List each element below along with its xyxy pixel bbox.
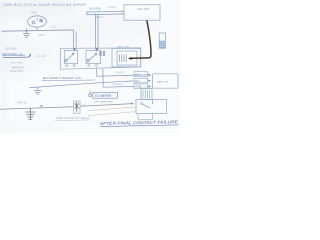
ignition switch S1 box xyxy=(124,5,160,20)
svg-text:POSITION: POSITION xyxy=(10,69,23,73)
connector F1 (top right) xyxy=(159,33,165,48)
wire: switched feed stub with hook arrow xyxy=(3,55,30,58)
W3 arrowhead xyxy=(148,85,151,87)
svg-text:FUEL GAUGE TO FUEL P.: FUEL GAUGE TO FUEL P. xyxy=(56,116,90,120)
bottom wire arrowhead right xyxy=(131,103,134,105)
wire: motor stem xyxy=(36,27,38,30)
unit switch pivot xyxy=(141,103,143,105)
tan wire T1 xyxy=(88,107,136,111)
paper background xyxy=(0,0,180,133)
svg-text:12 volt: 12 volt xyxy=(37,54,45,58)
bottom caption text xyxy=(99,119,179,126)
coil A terminals xyxy=(66,65,68,67)
label box TO WIPER xyxy=(93,92,118,98)
coil B terminals xyxy=(88,65,90,67)
svg-text:GRN 16: GRN 16 xyxy=(17,100,28,104)
svg-text:12V wiper feed: 12V wiper feed xyxy=(94,99,113,103)
contact section inner box xyxy=(117,51,137,65)
wire: drop pair to relay coil B xyxy=(96,14,98,49)
connector on top of unit xyxy=(141,89,152,100)
ground G3 xyxy=(26,108,36,120)
contact plate marks xyxy=(100,51,105,56)
arrow into coil B xyxy=(95,48,98,51)
wire W3 drop and run xyxy=(103,69,134,87)
stub loop below unit xyxy=(138,114,152,120)
svg-text:BLK/RED: BLK/RED xyxy=(89,6,101,10)
unit contact tick xyxy=(152,100,154,104)
svg-text:TO WIPER: TO WIPER xyxy=(95,94,112,98)
wire W2 long from left xyxy=(30,81,134,88)
wire: drop pair to relay coil A xyxy=(74,30,77,49)
mid-wire arrowhead xyxy=(41,105,44,107)
contact section outer box xyxy=(112,48,141,66)
svg-text:14 GA: 14 GA xyxy=(108,5,116,9)
arrow into coil A xyxy=(73,48,76,51)
unit switch arm xyxy=(142,104,150,108)
tan wire T2 xyxy=(88,112,136,116)
svg-text:BLU W/WHT TRACER +12V: BLU W/WHT TRACER +12V xyxy=(43,76,82,80)
svg-text:GRN: GRN xyxy=(38,33,46,37)
svg-text:BLU: BLU xyxy=(135,79,140,83)
wire: main feed (left horizontal) xyxy=(2,30,74,31)
svg-text:PARKING: PARKING xyxy=(12,66,24,70)
arrowheads at switch input xyxy=(121,11,123,13)
bottom right unit box xyxy=(136,100,167,114)
inline connector K1 xyxy=(73,101,80,113)
coil A contact arm xyxy=(65,54,73,62)
svg-text:park wire: park wire xyxy=(111,82,123,86)
contact coil hatches xyxy=(120,55,127,63)
coil B contact arm xyxy=(87,54,96,61)
svg-text:1969 BUG XYZ w/ RAMP REGULAR: 1969 BUG XYZ w/ RAMP REGULAR WIPER xyxy=(3,2,86,7)
relay assembly outer box xyxy=(61,48,141,69)
washer pump box xyxy=(153,74,178,88)
svg-text:SWITCHED +12: SWITCHED +12 xyxy=(2,52,23,56)
svg-text:wiper feed: wiper feed xyxy=(10,61,23,65)
svg-text:12V IGN.: 12V IGN. xyxy=(5,47,18,51)
W1 label box xyxy=(134,72,148,77)
svg-text:IGN. SW: IGN. SW xyxy=(137,7,150,11)
relay coil A sub-box xyxy=(64,51,77,64)
ground G1 xyxy=(23,29,30,37)
svg-text:wiper sw: wiper sw xyxy=(157,80,169,84)
relay coil B sub-box xyxy=(86,51,101,64)
wires: feed to ignition switch xyxy=(87,11,124,15)
svg-text:BLK w .: BLK w . xyxy=(96,15,105,19)
wire W1 to washer unit xyxy=(97,75,148,76)
ground G2 on W2 xyxy=(34,87,41,94)
svg-text:+12V: +12V xyxy=(50,25,58,29)
heavy wire: ignition switch to relay contact xyxy=(130,20,152,58)
heavy wire arrowhead xyxy=(128,57,132,60)
svg-text:+12: +12 xyxy=(82,103,87,106)
W2 label box xyxy=(134,78,148,83)
W2 arrowhead xyxy=(148,80,151,82)
label mark pin 1 xyxy=(89,94,92,97)
W3 label box xyxy=(134,84,148,89)
bottom main wire xyxy=(0,107,73,110)
W1 arrowhead xyxy=(148,74,151,76)
wire: relay B output drop xyxy=(96,69,98,77)
svg-text:wiper relay: wiper relay xyxy=(117,44,130,48)
svg-text:BLK: BLK xyxy=(135,72,140,76)
wiper motor M1 xyxy=(28,16,47,27)
svg-text:to pump: to pump xyxy=(115,70,125,74)
